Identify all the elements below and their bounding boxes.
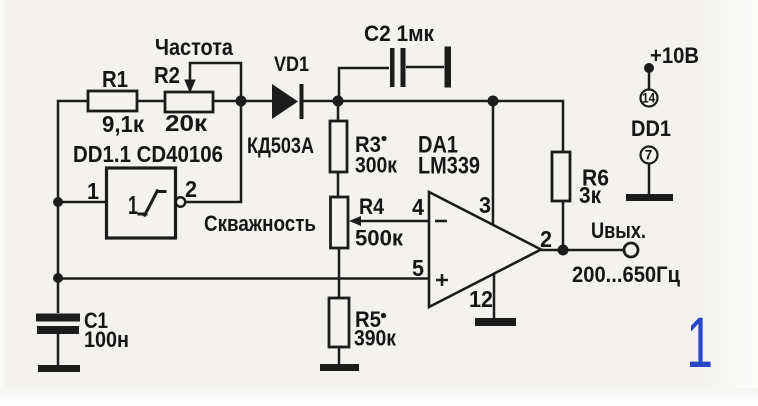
svg-text:Скважность: Скважность [204,211,316,236]
ground under R5 [320,364,359,371]
wire pin 1 input [58,201,106,204]
node C junction dot [488,96,499,107]
wire pin 12 [493,274,496,319]
svg-text:3: 3 [479,192,491,218]
resistor R6 [552,152,609,208]
svg-text:DD1.1 CD40106: DD1.1 CD40106 [73,141,223,167]
wire +10V terminal to pin14 [648,70,651,90]
svg-text:Частота: Частота [155,34,233,60]
IC DD1.1 schmitt trigger [73,141,223,238]
wire R6 to output node [562,201,565,250]
junction dot on rail pin5 [53,273,63,283]
junction dot on rail pin1 [53,197,63,207]
capacitor C1 [36,278,129,365]
wire node B to node C bus [338,100,493,103]
ground under C1 [38,365,80,372]
wire diode cathode to node B [303,100,338,103]
+10V terminal [644,43,699,73]
power common bar [626,194,673,201]
svg-text:12: 12 [469,286,493,312]
svg-text:R2: R2 [154,62,180,88]
pin 14 circle [641,90,658,107]
svg-text:R1: R1 [102,66,128,92]
resistor R1 [88,66,144,137]
resistor R3 [330,121,398,178]
potentiometer R4 [331,194,404,251]
wire R2 wiper loop [190,63,241,101]
svg-text:C2 1мк: C2 1мк [364,21,435,46]
capacitor C2 [364,21,451,88]
output terminal circle [624,243,638,257]
svg-text:5: 5 [412,255,424,281]
svg-text:7: 7 [645,148,653,163]
wire R4 to R5 [338,248,341,298]
wire top bus left rail [58,101,88,278]
svg-text:300к: 300к [355,153,398,178]
svg-text:VD1: VD1 [274,53,309,76]
svg-text:200...650Гц: 200...650Гц [572,262,680,287]
svg-text:+10В: +10В [650,43,699,68]
svg-text:LM339: LM339 [418,153,480,180]
wire node C to R6 branch corner [493,101,563,152]
ground under pin 12 [475,318,516,326]
output node junction dot [558,245,569,256]
svg-text:DD1: DD1 [631,116,671,141]
wire output to terminal [541,249,624,252]
wire R2 to node A [213,100,272,103]
svg-text:390к: 390к [354,326,397,351]
svg-text:500к: 500к [355,226,404,251]
svg-text:20к: 20к [165,110,208,136]
wire pin 3 [492,101,495,226]
page number 1 [686,302,713,382]
wire DD output to node A riser [186,101,242,202]
pin 7 circle [641,147,658,164]
svg-text:1: 1 [128,190,138,220]
svg-text:2: 2 [540,226,552,252]
svg-text:R4: R4 [359,194,385,219]
wire R4 wiper to pin 4 [352,220,429,223]
wire node B to R3 [337,101,340,121]
node B junction dot [333,96,344,107]
svg-text:100н: 100н [84,327,129,352]
wire C2 left branch [339,68,389,101]
op-amp DA1 [412,132,552,313]
svg-text:3к: 3к [579,182,601,208]
svg-text:4: 4 [412,194,424,220]
potentiometer R2 [154,62,213,136]
wire C2 right plate link [406,66,444,69]
wire R3 to R4 [337,172,340,197]
wire R1 to R2 [137,100,165,103]
node A junction dot [236,96,247,107]
wire pin 5 input [58,277,429,280]
diode VD1 [247,53,314,158]
svg-text:2: 2 [185,176,197,202]
svg-text:1: 1 [87,178,99,204]
resistor R5 [329,298,397,351]
wire pin7 to power bar [648,163,651,195]
svg-text:9,1к: 9,1к [102,111,144,137]
svg-text:1: 1 [686,302,713,382]
svg-text:Uвых.: Uвых. [591,218,646,243]
svg-text:КД503А: КД503А [247,133,314,158]
svg-text:14: 14 [642,91,655,106]
wire R5 to ground [338,347,341,365]
